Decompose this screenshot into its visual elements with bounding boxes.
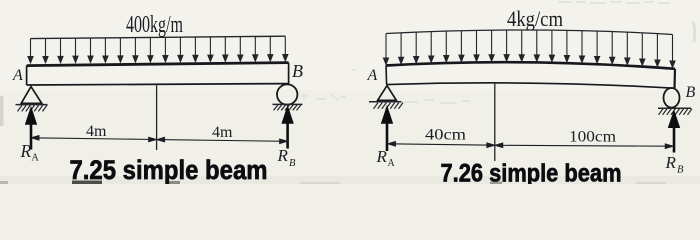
svg-text:100cm: 100cm (569, 129, 617, 146)
svg-text:R: R (20, 141, 32, 161)
beam AB (7.25) (27, 63, 289, 85)
midspan tick line at 40cm (7.26) (494, 83, 496, 162)
dimension line 100cm (7.26) (495, 143, 673, 148)
svg-text:40cm: 40cm (425, 127, 467, 144)
svg-text:B: B (686, 84, 696, 101)
reaction arrow RA (7.25) (26, 108, 37, 150)
reaction arrow RB (7.26) (669, 111, 680, 153)
svg-text:R: R (277, 146, 289, 165)
svg-text:4kg/cm: 4kg/cm (507, 6, 563, 31)
dimension line 40cm (7.26) (388, 142, 495, 148)
faint bleed-through marks left edge (0, 96, 4, 126)
svg-text:4m: 4m (212, 124, 233, 141)
faint marks bottom below captions (72, 181, 102, 185)
pin support at A (7.25) (21, 87, 42, 104)
svg-text:400kg/m: 400kg/m (126, 12, 183, 38)
ground hatch under pin A (7.25) (16, 105, 48, 112)
pin support at A (7.26) (378, 86, 397, 101)
dimension line 4m left (7.25) (31, 136, 156, 142)
roller support at B (7.26) (664, 88, 680, 108)
page background (0, 0, 700, 184)
svg-text:R: R (376, 147, 388, 166)
svg-text:A: A (12, 67, 23, 84)
svg-text:7.26 simple beam: 7.26 simple beam (441, 159, 622, 184)
svg-text:A: A (367, 67, 378, 84)
svg-text:4m: 4m (86, 123, 107, 140)
ground hatch under roller B (7.26) (658, 108, 692, 115)
ground hatch under pin A (7.26) (369, 102, 403, 109)
reaction arrow RB (7.25) (282, 107, 293, 149)
ground hatch under roller B (7.25) (273, 104, 303, 110)
svg-text:B: B (677, 164, 684, 175)
reaction arrow RA (7.26) (382, 107, 393, 152)
faint bleed-through marks top right (558, 2, 670, 3)
distributed load arrows (7.26) (384, 30, 676, 67)
svg-text:R: R (665, 153, 677, 172)
faint bleed-through text between diagrams (300, 70, 470, 103)
svg-text:7.25 simple beam: 7.25 simple beam (70, 155, 268, 184)
roller support at B (7.25) (277, 84, 297, 104)
svg-text:A: A (32, 153, 40, 164)
distributed load top line (7.25) (31, 36, 286, 38)
svg-text:B: B (289, 158, 296, 169)
beam AB (7.26) (386, 62, 675, 88)
distributed load arrows (7.25) (28, 36, 288, 63)
distributed load top line (7.26) (386, 30, 673, 35)
svg-text:A: A (388, 158, 396, 169)
midspan tick line (7.25) (156, 86, 158, 151)
svg-text:B: B (292, 61, 303, 81)
dimension line 4m right (7.25) (157, 137, 287, 143)
